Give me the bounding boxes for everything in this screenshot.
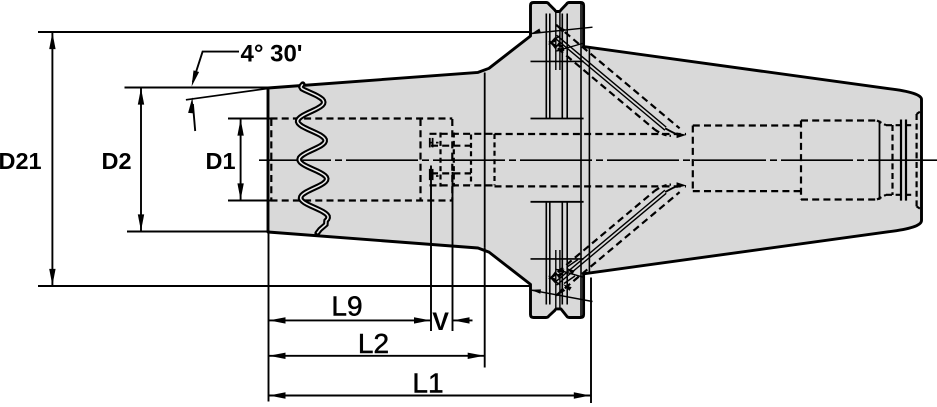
L1 extension line [590,278,592,404]
flange notch-bottom verticals [555,12,557,71]
svg-text:L2: L2 [358,328,389,359]
flange corner leader cluster bottom [532,290,593,301]
D1 dimension line [240,120,242,200]
svg-text:4° 30': 4° 30' [241,41,303,68]
D1 extension lines [228,118,272,120]
D2 extension lines [125,87,269,89]
flange right face inner line [580,4,582,316]
coolant hook bottom [665,185,681,192]
bore1 rect [692,126,694,192]
coolant channels top [556,25,679,128]
bore D1 hidden lines [271,117,453,119]
svg-text:D21: D21 [0,148,42,174]
svg-text:L1: L1 [412,368,443,399]
cone end edge line [484,73,486,248]
small bore pair through flange [495,133,687,135]
bore entry vertical [270,119,272,200]
angle leader 4deg30 [193,52,239,82]
wavy line (thread zone) [298,84,328,233]
angle second arrow [193,104,195,131]
flange slot lines [531,118,584,120]
svg-text:D2: D2 [102,148,132,174]
bore box verticals [419,119,421,200]
coolant channels bottom [556,192,679,295]
right end solid verticals [879,121,881,200]
toolholder body outline [268,3,922,318]
flange corner leader cluster top [532,27,593,33]
V outside arrow [453,319,473,321]
svg-text:V: V [432,308,449,336]
L9 dimension line [269,319,432,321]
thread entry H marks [429,138,431,148]
D21 extension lines [38,31,531,33]
flange cross lines [531,60,584,62]
flange inner verticals (V-groove) [545,14,547,119]
bore2 rect [800,121,802,200]
L2 extension line (cone end) [484,248,486,368]
D21 dimension line [51,33,53,285]
L1 dimension line [269,395,591,397]
coolant hook top [665,128,681,135]
gauge line [588,47,590,273]
svg-text:D1: D1 [206,148,236,174]
L2 dimension line [269,355,485,357]
L dims left extension line [268,234,270,402]
centerline [259,159,937,161]
D2 dimension line [140,89,142,231]
thread detail [430,133,495,135]
svg-text:L9: L9 [331,291,362,322]
angle reference slant line [186,88,269,100]
V extension lines [430,166,432,332]
